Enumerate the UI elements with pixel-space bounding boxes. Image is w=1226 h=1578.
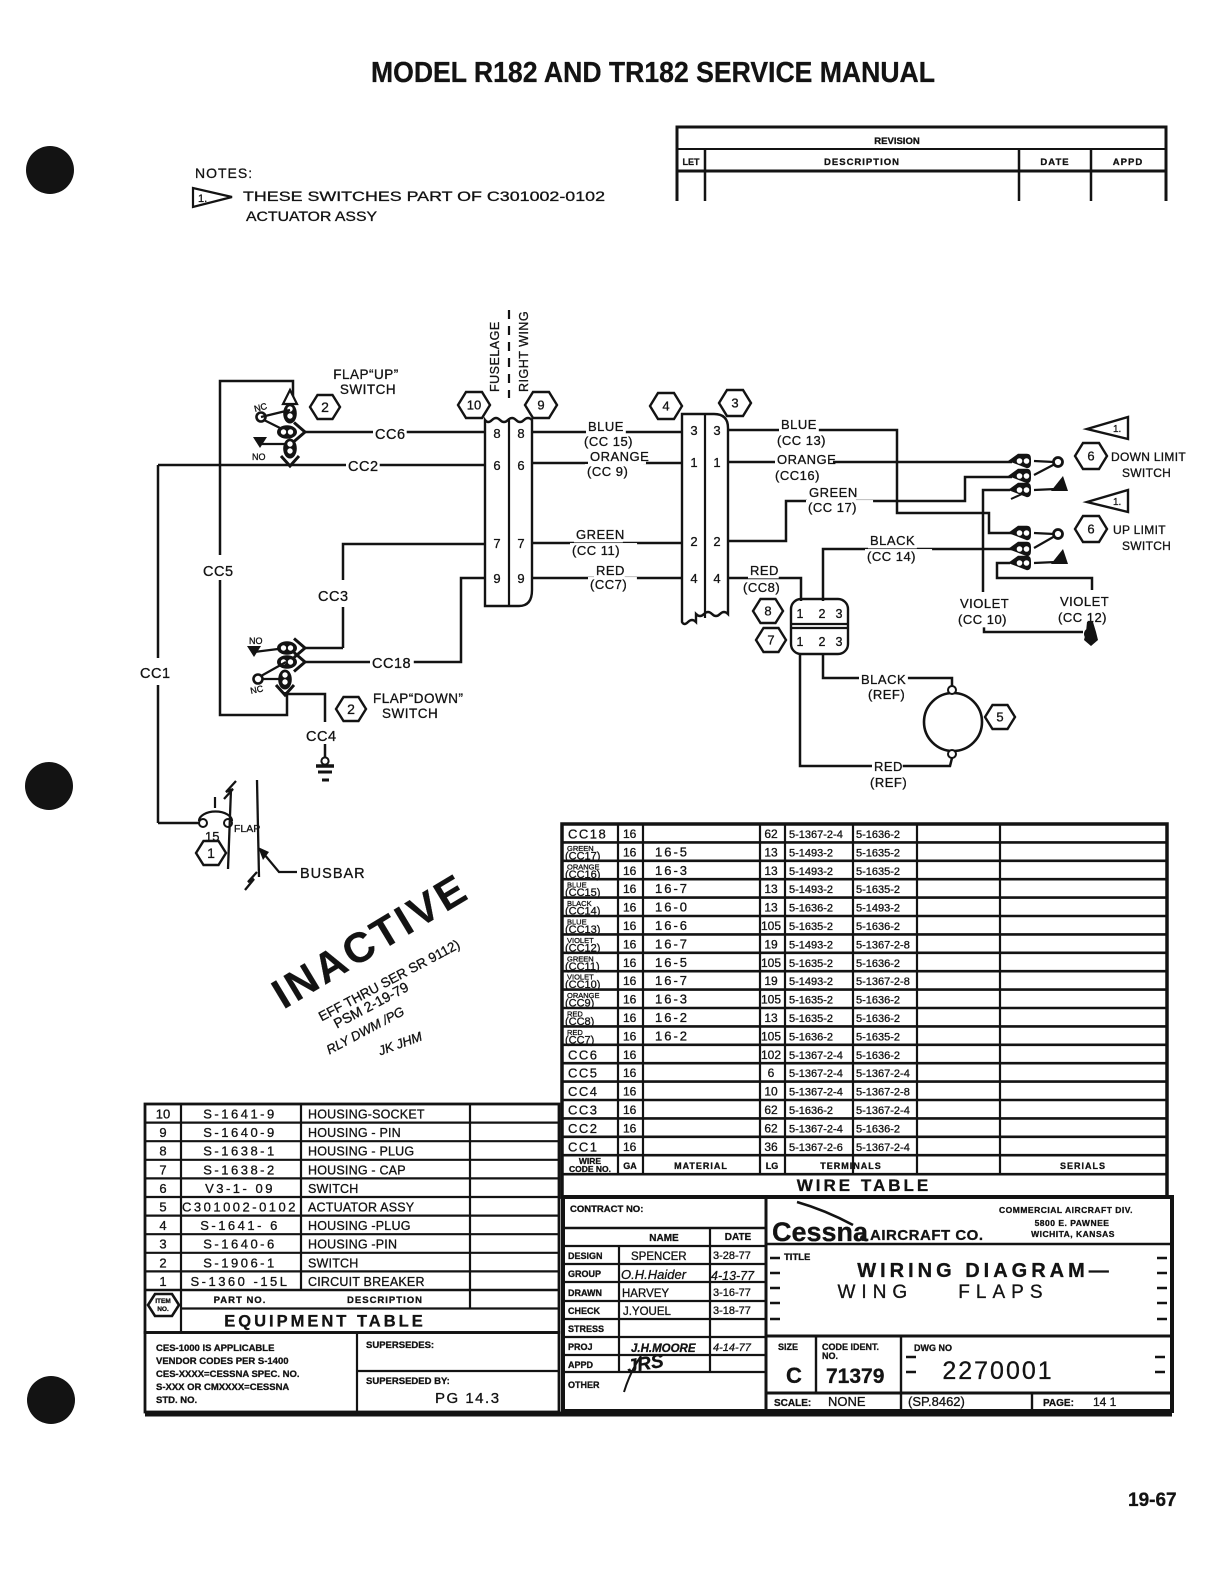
svg-text:APPD: APPD xyxy=(568,1360,594,1370)
wire GREEN CC11 xyxy=(532,542,682,545)
svg-text:5-1635-2: 5-1635-2 xyxy=(856,1031,900,1043)
svg-text:2: 2 xyxy=(819,635,826,649)
svg-text:(CC12): (CC12) xyxy=(565,942,600,954)
svg-text:DOWN LIMIT: DOWN LIMIT xyxy=(1111,450,1186,464)
svg-text:19: 19 xyxy=(764,974,778,988)
svg-text:9: 9 xyxy=(537,398,544,413)
up limit switch contacts xyxy=(1008,526,1031,540)
svg-text:S-1640-9: S-1640-9 xyxy=(203,1125,276,1140)
svg-text:BLACK: BLACK xyxy=(870,533,915,548)
svg-text:13: 13 xyxy=(764,845,778,859)
svg-text:CES-XXXX=CESSNA SPEC. NO.: CES-XXXX=CESSNA SPEC. NO. xyxy=(156,1369,300,1380)
svg-text:1.: 1. xyxy=(1113,497,1121,508)
hexagon flag 2 (flap up switch) xyxy=(310,395,340,419)
binding tick marks xyxy=(770,1258,1167,1372)
svg-text:WIRE TABLE: WIRE TABLE xyxy=(797,1176,932,1195)
svg-text:FLAP: FLAP xyxy=(234,823,260,835)
svg-text:(CC 10): (CC 10) xyxy=(958,612,1007,627)
svg-text:62: 62 xyxy=(764,1121,778,1135)
svg-text:16: 16 xyxy=(623,1140,637,1154)
svg-text:5-1635-2: 5-1635-2 xyxy=(789,995,833,1007)
note flag 1 (down limit) xyxy=(1087,417,1128,439)
svg-text:HOUSING -PLUG: HOUSING -PLUG xyxy=(308,1219,411,1233)
svg-text:RED: RED xyxy=(874,759,903,774)
svg-text:(CC 13): (CC 13) xyxy=(777,433,826,448)
svg-text:(REF): (REF) xyxy=(870,775,907,790)
busbar callout arrow xyxy=(264,854,297,872)
svg-text:(CC 12): (CC 12) xyxy=(1058,610,1107,625)
svg-text:CC18: CC18 xyxy=(568,827,607,842)
svg-text:13: 13 xyxy=(764,864,778,878)
svg-text:3: 3 xyxy=(836,607,843,621)
svg-text:5-1367-2-4: 5-1367-2-4 xyxy=(856,1068,910,1080)
svg-text:5-1636-2: 5-1636-2 xyxy=(789,903,833,915)
svg-text:PG 14.3: PG 14.3 xyxy=(435,1390,501,1407)
svg-text:16-3: 16-3 xyxy=(655,863,689,878)
svg-text:OTHER: OTHER xyxy=(568,1380,600,1390)
svg-text:(CC 9): (CC 9) xyxy=(587,464,628,479)
svg-text:5-1636-2: 5-1636-2 xyxy=(856,958,900,970)
splice terminal (violet wires) xyxy=(1084,622,1098,646)
connector J10/J9 body xyxy=(485,418,532,606)
svg-text:(CC15): (CC15) xyxy=(565,887,600,899)
svg-text:2: 2 xyxy=(690,534,697,549)
svg-text:AIRCRAFT CO.: AIRCRAFT CO. xyxy=(870,1227,984,1244)
svg-text:16: 16 xyxy=(623,1011,637,1025)
svg-text:C301002-0102: C301002-0102 xyxy=(182,1200,298,1215)
svg-text:HOUSING -PIN: HOUSING -PIN xyxy=(308,1238,397,1252)
svg-text:COMMERCIAL AIRCRAFT DIV.: COMMERCIAL AIRCRAFT DIV. xyxy=(999,1205,1133,1215)
wire RED CC8 to connector 8 pin 1 xyxy=(728,578,801,601)
wire CC6 xyxy=(303,431,485,434)
svg-text:3: 3 xyxy=(836,635,843,649)
svg-text:19-67: 19-67 xyxy=(1128,1490,1177,1511)
contact to CC6 (flap up) xyxy=(277,425,297,439)
svg-text:S-1641- 6: S-1641- 6 xyxy=(200,1218,280,1233)
svg-text:CES-1000 IS APPLICABLE: CES-1000 IS APPLICABLE xyxy=(156,1343,274,1354)
svg-text:9: 9 xyxy=(159,1125,166,1140)
revision table xyxy=(677,127,1166,201)
svg-text:(CC7): (CC7) xyxy=(565,1034,594,1046)
svg-text:BLUE: BLUE xyxy=(588,419,624,434)
wire VIOLET CC12 xyxy=(997,563,1092,590)
svg-text:REVISION: REVISION xyxy=(874,136,920,147)
svg-text:71379: 71379 xyxy=(826,1365,884,1388)
label RED (REF) xyxy=(872,759,903,774)
common pivot + arm (flap up) xyxy=(257,413,266,422)
svg-text:(CC9): (CC9) xyxy=(565,998,594,1010)
svg-text:(CC8): (CC8) xyxy=(565,1016,594,1028)
svg-text:CHECK: CHECK xyxy=(568,1306,601,1316)
svg-text:7: 7 xyxy=(159,1162,166,1177)
wire BLACK REF xyxy=(823,654,952,686)
svg-text:S-1640-6: S-1640-6 xyxy=(203,1237,276,1252)
svg-text:NO: NO xyxy=(249,636,263,646)
wire table data xyxy=(565,827,910,1155)
wire ORANGE CC9 xyxy=(532,462,682,465)
svg-text:3: 3 xyxy=(159,1237,166,1252)
svg-text:HOUSING - PIN: HOUSING - PIN xyxy=(308,1126,401,1140)
svg-text:TERMINALS: TERMINALS xyxy=(820,1161,882,1171)
svg-text:5-1367-2-4: 5-1367-2-4 xyxy=(789,829,843,841)
wire CC5 lower segment xyxy=(220,580,287,715)
svg-text:TITLE: TITLE xyxy=(784,1252,810,1263)
svg-text:CC6: CC6 xyxy=(568,1047,599,1062)
svg-text:PART NO.: PART NO. xyxy=(214,1295,267,1306)
punch hole top xyxy=(26,146,74,194)
svg-text:HARVEY: HARVEY xyxy=(622,1288,669,1300)
circuit breaker CB1 xyxy=(199,819,207,827)
hexagon flag 8 xyxy=(753,599,783,623)
label CC2 xyxy=(346,458,380,475)
svg-text:16: 16 xyxy=(623,937,637,951)
hexagon flag 10 xyxy=(458,392,490,418)
note flag 1 xyxy=(193,188,232,207)
svg-text:(CC11): (CC11) xyxy=(565,961,600,973)
svg-text:SWITCH: SWITCH xyxy=(1122,466,1171,480)
svg-text:6: 6 xyxy=(159,1181,166,1196)
signature entries xyxy=(621,1250,755,1392)
svg-text:HOUSING - PLUG: HOUSING - PLUG xyxy=(308,1145,414,1159)
svg-text:S-1638-2: S-1638-2 xyxy=(203,1162,276,1177)
svg-text:5-1635-2: 5-1635-2 xyxy=(789,1013,833,1025)
hexagon flag 4 xyxy=(650,393,682,419)
ground (CC4) xyxy=(316,757,334,780)
svg-text:5-1635-2: 5-1635-2 xyxy=(856,847,900,859)
wire ORANGE CC16 to down limit switch xyxy=(728,461,1012,464)
svg-text:4: 4 xyxy=(662,399,669,414)
vendor codes box xyxy=(145,1333,559,1413)
svg-text:10: 10 xyxy=(467,398,481,413)
svg-text:CC3: CC3 xyxy=(318,589,349,605)
svg-text:S-1906-1: S-1906-1 xyxy=(203,1255,276,1270)
svg-text:(REF): (REF) xyxy=(868,687,905,702)
svg-text:WING FLAPS: WING FLAPS xyxy=(837,1282,1048,1303)
svg-text:5-1367-2-4: 5-1367-2-4 xyxy=(856,1142,910,1154)
svg-text:9: 9 xyxy=(517,571,524,586)
svg-text:105: 105 xyxy=(761,1029,781,1043)
svg-text:3-18-77: 3-18-77 xyxy=(713,1305,751,1317)
svg-text:16: 16 xyxy=(623,1048,637,1062)
label CC5 xyxy=(201,563,235,580)
svg-text:SUPERSEDES:: SUPERSEDES: xyxy=(366,1340,434,1351)
svg-text:3-16-77: 3-16-77 xyxy=(713,1287,751,1299)
svg-text:5-1636-2: 5-1636-2 xyxy=(856,829,900,841)
svg-text:5-1636-2: 5-1636-2 xyxy=(789,1031,833,1043)
label ORANGE (CC16) xyxy=(775,452,833,467)
svg-text:SWITCH: SWITCH xyxy=(1122,539,1171,553)
svg-text:NO.: NO. xyxy=(822,1351,838,1361)
hexagon flag 6 (down limit) xyxy=(1075,443,1107,469)
label BLUE (CC 13) xyxy=(779,417,819,432)
svg-text:16-0: 16-0 xyxy=(655,900,689,915)
label BLUE (CC 15) xyxy=(586,419,626,434)
svg-text:6: 6 xyxy=(493,458,500,473)
svg-text:4-13-77: 4-13-77 xyxy=(711,1269,755,1283)
busbar xyxy=(224,780,259,890)
svg-text:105: 105 xyxy=(761,919,781,933)
wire CC5 top elbow xyxy=(220,381,293,555)
svg-text:DATE: DATE xyxy=(1040,157,1069,168)
svg-text:SERIALS: SERIALS xyxy=(1060,1161,1106,1171)
svg-text:UP LIMIT: UP LIMIT xyxy=(1113,523,1166,537)
svg-text:(CC17): (CC17) xyxy=(565,850,600,862)
svg-text:1: 1 xyxy=(159,1274,166,1289)
hexagon flag 9 xyxy=(525,392,557,418)
svg-text:HOUSING-SOCKET: HOUSING-SOCKET xyxy=(308,1108,425,1122)
down limit switch contacts xyxy=(1008,454,1031,468)
label CC18 xyxy=(370,655,414,672)
svg-text:(CC16): (CC16) xyxy=(565,869,600,881)
svg-text:SWITCH: SWITCH xyxy=(308,1256,359,1270)
svg-text:16: 16 xyxy=(623,864,637,878)
svg-text:ACTUATOR ASSY: ACTUATOR ASSY xyxy=(246,209,377,224)
svg-text:(CC10): (CC10) xyxy=(565,979,600,991)
svg-text:16-2: 16-2 xyxy=(655,1010,689,1025)
svg-text:GREEN: GREEN xyxy=(809,485,858,500)
svg-text:16: 16 xyxy=(623,845,637,859)
svg-text:16: 16 xyxy=(623,882,637,896)
svg-text:5-1493-2: 5-1493-2 xyxy=(789,866,833,878)
svg-text:1: 1 xyxy=(797,635,804,649)
label VIOLET (CC 12) xyxy=(1058,594,1116,609)
svg-text:16: 16 xyxy=(623,827,637,841)
svg-text:16-7: 16-7 xyxy=(655,973,689,988)
svg-text:5-1493-2: 5-1493-2 xyxy=(856,903,900,915)
svg-text:CC1: CC1 xyxy=(568,1139,599,1154)
svg-text:NAME: NAME xyxy=(649,1233,679,1244)
svg-text:4: 4 xyxy=(159,1218,166,1233)
common pivot + arm (flap down) xyxy=(254,675,263,684)
wire BLUE CC15 xyxy=(532,431,682,434)
svg-text:VIOLET: VIOLET xyxy=(960,596,1009,611)
svg-text:NOTES:: NOTES: xyxy=(195,165,253,181)
svg-text:SWITCH: SWITCH xyxy=(340,382,396,397)
svg-text:5-1635-2: 5-1635-2 xyxy=(789,921,833,933)
svg-text:5-1493-2: 5-1493-2 xyxy=(789,976,833,988)
hexagon flag 3 xyxy=(719,390,751,416)
svg-text:S-1641-9: S-1641-9 xyxy=(203,1107,276,1122)
hexagon flag 5 (actuator) xyxy=(985,705,1015,729)
signature rows xyxy=(568,1251,604,1390)
svg-text:EQUIPMENT TABLE: EQUIPMENT TABLE xyxy=(224,1313,425,1331)
svg-text:VIOLET: VIOLET xyxy=(1060,594,1109,609)
svg-text:(CC13): (CC13) xyxy=(565,924,600,936)
svg-text:GA: GA xyxy=(623,1161,637,1171)
svg-text:MODEL R182 AND TR182 SERVICE M: MODEL R182 AND TR182 SERVICE MANUAL xyxy=(371,57,935,89)
svg-text:V3-1- 09: V3-1- 09 xyxy=(205,1181,275,1196)
svg-text:(CC8): (CC8) xyxy=(743,580,780,595)
svg-text:16: 16 xyxy=(623,1066,637,1080)
contact to CC18 (flap down) xyxy=(277,655,297,669)
svg-text:ORANGE: ORANGE xyxy=(777,452,836,467)
svg-text:VENDOR CODES PER S-1400: VENDOR CODES PER S-1400 xyxy=(156,1356,289,1367)
hexagon flag 1 (circuit breaker) xyxy=(196,841,226,865)
svg-text:5-1636-2: 5-1636-2 xyxy=(856,1013,900,1025)
wire RED REF xyxy=(800,654,952,766)
svg-text:CC1: CC1 xyxy=(140,666,171,682)
svg-text:APPD: APPD xyxy=(1113,157,1143,168)
svg-text:DESIGN: DESIGN xyxy=(568,1251,603,1261)
wire CC1 vertical xyxy=(157,465,160,658)
svg-text:1.: 1. xyxy=(1113,424,1121,435)
svg-text:16-5: 16-5 xyxy=(655,844,689,859)
svg-text:SWITCH: SWITCH xyxy=(308,1182,359,1196)
svg-text:5-1367-2-4: 5-1367-2-4 xyxy=(789,1068,843,1080)
svg-text:(CC7): (CC7) xyxy=(590,577,627,592)
svg-text:5-1493-2: 5-1493-2 xyxy=(789,939,833,951)
svg-text:16-3: 16-3 xyxy=(655,992,689,1007)
wire CC2 xyxy=(158,464,485,467)
svg-text:J.YOUEL: J.YOUEL xyxy=(623,1306,672,1318)
svg-text:NONE: NONE xyxy=(828,1394,866,1409)
svg-text:5-1636-2: 5-1636-2 xyxy=(789,1105,833,1117)
flap motor M1 xyxy=(924,693,982,751)
svg-text:5800 E. PAWNEE: 5800 E. PAWNEE xyxy=(1035,1218,1110,1228)
svg-text:1: 1 xyxy=(713,455,720,470)
wire BLACK CC14 xyxy=(823,549,1012,601)
svg-text:(CC 17): (CC 17) xyxy=(808,500,857,515)
svg-text:CC3: CC3 xyxy=(568,1103,599,1118)
svg-text:5: 5 xyxy=(996,710,1003,725)
svg-text:BUSBAR: BUSBAR xyxy=(300,866,366,882)
svg-text:CIRCUIT BREAKER: CIRCUIT BREAKER xyxy=(308,1275,425,1289)
svg-text:Cessna: Cessna xyxy=(772,1217,869,1247)
svg-text:SCALE:: SCALE: xyxy=(774,1398,811,1409)
svg-text:2: 2 xyxy=(347,701,355,717)
svg-text:13: 13 xyxy=(764,882,778,896)
svg-text:1: 1 xyxy=(797,607,804,621)
svg-text:16-7: 16-7 xyxy=(655,936,689,951)
svg-text:3: 3 xyxy=(731,396,738,411)
svg-text:5-1635-2: 5-1635-2 xyxy=(856,866,900,878)
label GREEN (CC 11) xyxy=(574,527,623,542)
svg-text:CONTRACT NO:: CONTRACT NO: xyxy=(570,1204,643,1215)
svg-text:BLUE: BLUE xyxy=(781,417,817,432)
svg-text:4: 4 xyxy=(713,571,720,586)
svg-text:36: 36 xyxy=(764,1140,778,1154)
svg-text:5-1367-2-4: 5-1367-2-4 xyxy=(789,1050,843,1062)
svg-text:16: 16 xyxy=(623,919,637,933)
label RED (CC8) xyxy=(748,563,779,578)
wire CC1 to breaker xyxy=(158,822,202,825)
svg-text:RED: RED xyxy=(596,563,625,578)
svg-text:8: 8 xyxy=(493,426,500,441)
svg-text:16-6: 16-6 xyxy=(655,918,689,933)
svg-text:5-1367-2-4: 5-1367-2-4 xyxy=(856,1105,910,1117)
svg-text:5: 5 xyxy=(159,1200,166,1215)
svg-text:4: 4 xyxy=(690,571,697,586)
svg-text:FLAP“UP”: FLAP“UP” xyxy=(333,367,399,382)
svg-text:DESCRIPTION: DESCRIPTION xyxy=(347,1295,423,1306)
svg-text:5-1635-2: 5-1635-2 xyxy=(856,884,900,896)
svg-text:CC6: CC6 xyxy=(375,427,406,443)
svg-text:105: 105 xyxy=(761,956,781,970)
svg-text:105: 105 xyxy=(761,993,781,1007)
svg-text:8: 8 xyxy=(764,604,771,619)
svg-text:5-1636-2: 5-1636-2 xyxy=(856,1050,900,1062)
svg-text:CC18: CC18 xyxy=(372,656,411,672)
svg-text:RIGHT WING: RIGHT WING xyxy=(517,311,531,392)
svg-text:5-1636-2: 5-1636-2 xyxy=(856,921,900,933)
svg-text:16: 16 xyxy=(623,1029,637,1043)
equipment table data xyxy=(156,1107,425,1289)
svg-text:6: 6 xyxy=(1087,522,1094,537)
vendor codes text xyxy=(156,1343,300,1406)
svg-text:S-1360 -15L: S-1360 -15L xyxy=(190,1274,289,1289)
svg-text:ITEM: ITEM xyxy=(155,1298,171,1305)
svg-text:5-1493-2: 5-1493-2 xyxy=(789,847,833,859)
svg-text:7: 7 xyxy=(767,633,774,648)
svg-text:7: 7 xyxy=(517,536,524,551)
svg-text:14 1: 14 1 xyxy=(1093,1395,1117,1409)
svg-text:(CC 11): (CC 11) xyxy=(572,543,620,558)
svg-text:(CC16): (CC16) xyxy=(775,468,820,483)
svg-text:16: 16 xyxy=(623,901,637,915)
svg-text:16: 16 xyxy=(623,1085,637,1099)
svg-text:3: 3 xyxy=(690,423,697,438)
svg-text:MATERIAL: MATERIAL xyxy=(674,1161,728,1171)
svg-text:HOUSING - CAP: HOUSING - CAP xyxy=(308,1163,406,1177)
wire table grid xyxy=(562,824,1167,1197)
svg-text:5-1367-2-8: 5-1367-2-8 xyxy=(856,976,910,988)
svg-text:2270001: 2270001 xyxy=(942,1357,1053,1385)
svg-text:ORANGE: ORANGE xyxy=(590,449,649,464)
svg-text:1.: 1. xyxy=(198,193,207,205)
svg-text:DWG NO: DWG NO xyxy=(914,1343,952,1353)
svg-text:SUPERSEDED BY:: SUPERSEDED BY: xyxy=(366,1376,450,1387)
svg-text:(SP.8462): (SP.8462) xyxy=(908,1394,965,1409)
label RED (CC7) xyxy=(594,563,625,578)
svg-text:19: 19 xyxy=(764,937,778,951)
svg-text:PAGE:: PAGE: xyxy=(1043,1398,1074,1409)
hexagon flag 6 (up limit) xyxy=(1075,516,1107,542)
svg-text:GROUP: GROUP xyxy=(568,1269,601,1279)
svg-text:8: 8 xyxy=(517,426,524,441)
wire GREEN CC17 to down limit switch xyxy=(728,477,1012,541)
svg-text:SPENCER: SPENCER xyxy=(631,1251,687,1263)
svg-text:LET: LET xyxy=(683,157,701,167)
svg-text:NO: NO xyxy=(252,452,266,462)
svg-text:C: C xyxy=(786,1363,802,1388)
svg-text:10: 10 xyxy=(156,1107,170,1122)
NO contact (flap up) xyxy=(253,437,267,448)
svg-text:8: 8 xyxy=(159,1144,166,1159)
svg-text:CC2: CC2 xyxy=(348,459,379,475)
label BLACK (REF) xyxy=(859,672,908,687)
wire flap-down NO to CC3 xyxy=(303,647,343,650)
svg-text:102: 102 xyxy=(761,1048,781,1062)
svg-text:2: 2 xyxy=(321,399,329,415)
wire RED CC7 xyxy=(532,577,682,580)
svg-text:1: 1 xyxy=(690,455,697,470)
svg-text:5-1367-2-4: 5-1367-2-4 xyxy=(789,1087,843,1099)
svg-text:5-1367-2-8: 5-1367-2-8 xyxy=(856,1087,910,1099)
item no hexagon xyxy=(148,1294,179,1316)
svg-text:5-1635-2: 5-1635-2 xyxy=(789,958,833,970)
wire BLUE CC13 to up limit switch xyxy=(728,430,1012,533)
punch hole middle xyxy=(25,762,73,810)
wire CC3 vertical xyxy=(342,607,345,648)
equipment table grid xyxy=(145,1104,559,1333)
svg-text:WIRING DIAGRAM—: WIRING DIAGRAM— xyxy=(857,1260,1113,1282)
svg-text:DESCRIPTION: DESCRIPTION xyxy=(824,157,900,168)
svg-text:5-1367-2-6: 5-1367-2-6 xyxy=(789,1142,843,1154)
svg-text:2: 2 xyxy=(713,534,720,549)
svg-text:BLACK: BLACK xyxy=(861,672,906,687)
svg-text:PROJ: PROJ xyxy=(568,1342,593,1352)
svg-text:5-1493-2: 5-1493-2 xyxy=(789,884,833,896)
